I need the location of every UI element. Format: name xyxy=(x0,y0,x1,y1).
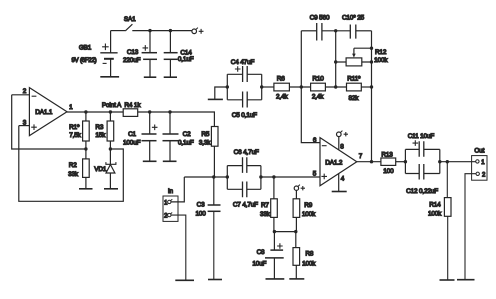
capacitor C11 (parallel box with C12) xyxy=(405,133,439,174)
svg-text:SA1: SA1 xyxy=(124,16,136,23)
wire (to pin 5) xyxy=(261,176,320,178)
svg-text:R9: R9 xyxy=(304,202,312,209)
wire (R4 to R5 corner) xyxy=(138,112,215,127)
svg-text:C4 47uF: C4 47uF xyxy=(231,59,255,66)
wire (DA1.2 output) xyxy=(357,161,381,163)
svg-text:DA1.1: DA1.1 xyxy=(35,109,53,116)
wire (In pin2 to ground) xyxy=(171,215,186,280)
zener diode VD1 xyxy=(94,149,116,189)
node (feedback left rail junction) xyxy=(300,85,303,88)
resistor R3 xyxy=(95,112,113,149)
node (right rail / R11) xyxy=(370,85,373,88)
capacitor C3 xyxy=(195,177,220,280)
svg-text:100: 100 xyxy=(195,210,206,217)
svg-text:Out: Out xyxy=(474,148,484,155)
capacitor C10 xyxy=(342,15,372,39)
node (C8 top) xyxy=(273,230,276,233)
connector Out xyxy=(472,148,487,181)
svg-text:R3: R3 xyxy=(95,124,103,131)
node (R3/VD1 junction) xyxy=(109,147,112,150)
terminal O+ (supply) xyxy=(192,28,204,34)
svg-text:0,1uF: 0,1uF xyxy=(178,56,194,63)
wire (In pin1 to signal node) xyxy=(171,177,184,202)
wire (DA1.1 output rail) xyxy=(67,111,123,113)
svg-text:R14: R14 xyxy=(429,202,441,209)
capacitor C2 xyxy=(163,112,194,161)
svg-text:Point A: Point A xyxy=(102,102,122,109)
svg-text:R8: R8 xyxy=(305,250,313,257)
resistor R9 xyxy=(293,190,316,231)
node (C9/C10 mid top) xyxy=(334,29,337,32)
svg-text:4: 4 xyxy=(341,176,345,183)
svg-text:In: In xyxy=(168,188,174,195)
wire (mid rail C10 to R10/R11 node) xyxy=(335,31,337,87)
capacitor C1 xyxy=(123,112,157,161)
resistor R7 xyxy=(260,177,277,232)
ground (C1) xyxy=(143,160,157,162)
resistor R14 xyxy=(428,162,451,280)
ground (C4/C5 stub) xyxy=(208,98,223,100)
svg-text:R4 1k: R4 1k xyxy=(124,102,141,109)
svg-text:R11*: R11* xyxy=(347,76,361,83)
svg-text:100k: 100k xyxy=(374,57,388,64)
wire (R6 to R10) xyxy=(289,86,310,88)
ground (VD1) xyxy=(104,188,118,190)
node (output/feedback junction) xyxy=(370,160,373,163)
op-amp DA1.1 xyxy=(23,88,73,136)
svg-text:15k: 15k xyxy=(95,132,106,139)
wire (pin 4 to ground) xyxy=(338,174,340,192)
svg-text:C5 0,1uF: C5 0,1uF xyxy=(232,112,257,119)
resistor R2 xyxy=(68,149,89,189)
wire (pin3 bias loop) xyxy=(19,126,124,202)
wire (pin 2 input) xyxy=(12,94,30,96)
op-amp DA1.2 xyxy=(313,137,363,186)
node (R8 top) xyxy=(294,230,297,233)
ground (C2) xyxy=(163,160,177,162)
svg-text:82k: 82k xyxy=(348,95,359,102)
capacitor C4 (in parallel box with C5) xyxy=(227,59,261,100)
svg-text:100: 100 xyxy=(383,168,394,175)
capacitor C7 xyxy=(227,182,261,209)
svg-text:R2: R2 xyxy=(69,162,77,169)
ground (Out pin2) xyxy=(457,279,475,281)
ground (R14) xyxy=(440,279,455,281)
svg-text:5: 5 xyxy=(313,170,317,177)
ground (battery) xyxy=(100,76,119,78)
wire (to Out jack) xyxy=(440,161,476,163)
svg-text:2: 2 xyxy=(23,88,27,95)
wire (R10 to R11) xyxy=(325,86,346,88)
ground (R2) xyxy=(79,188,93,190)
terminal O+ (R9 supply) xyxy=(294,185,305,191)
node (C13 top junction) xyxy=(148,29,151,32)
svg-text:GB1: GB1 xyxy=(79,45,92,52)
battery GB1 xyxy=(72,31,118,77)
svg-text:VD1: VD1 xyxy=(94,166,107,173)
svg-text:220uF: 220uF xyxy=(123,57,141,64)
node (C4/C5 left rail) xyxy=(226,85,229,88)
svg-text:C7 4,7uF: C7 4,7uF xyxy=(233,201,258,208)
svg-text:8: 8 xyxy=(340,144,344,151)
svg-text:R1*: R1* xyxy=(69,124,80,131)
wire (feedback right rail) xyxy=(371,31,373,162)
node (R1/R2 junction) xyxy=(84,147,87,150)
ground (C3) xyxy=(208,279,222,281)
node (C2 top) xyxy=(168,110,171,113)
ground (C13) xyxy=(144,76,157,78)
svg-text:C3: C3 xyxy=(197,201,205,208)
capacitor C12 xyxy=(405,164,439,195)
ground (In pin2) xyxy=(175,279,194,281)
svg-text:C1: C1 xyxy=(128,131,136,138)
capacitor C13 xyxy=(123,31,157,78)
resistor R4 xyxy=(123,102,141,117)
wire (C4/C5 left to ground) xyxy=(215,87,228,99)
node (R3 top junction) xyxy=(109,110,112,113)
svg-text:C10* 25: C10* 25 xyxy=(342,15,365,22)
svg-text:33k: 33k xyxy=(260,211,271,218)
svg-text:2: 2 xyxy=(482,173,486,179)
terminal O+ (DA1.2 pin 8 supply) xyxy=(337,131,349,150)
svg-text:100k: 100k xyxy=(302,211,316,218)
node (R7 top) xyxy=(272,175,275,178)
wire (signal node row) xyxy=(184,176,227,178)
svg-text:C6 4,7uF: C6 4,7uF xyxy=(234,149,259,156)
svg-text:R10: R10 xyxy=(312,76,324,83)
svg-text:7,5k: 7,5k xyxy=(69,132,81,139)
wire (pin 3 input) xyxy=(19,125,30,127)
ground (DA1.2 pin 4) xyxy=(332,191,347,193)
svg-text:R13: R13 xyxy=(381,151,393,158)
svg-text:C8: C8 xyxy=(257,249,265,256)
svg-text:R6: R6 xyxy=(277,76,285,83)
node (R14 top) xyxy=(446,160,449,163)
wire (R7/R9 bottom link) xyxy=(274,231,295,233)
wire (feedback to R1/R2 node) xyxy=(12,95,86,149)
svg-text:C12 0,22uF: C12 0,22uF xyxy=(406,188,438,195)
wire (R13 to C11 box) xyxy=(396,161,406,163)
node (C14 top junction) xyxy=(169,29,172,32)
connector In xyxy=(163,188,178,222)
node (C11/C12 left rail) xyxy=(404,160,407,163)
svg-text:C2: C2 xyxy=(183,131,191,138)
capacitor C5 xyxy=(227,92,261,120)
svg-text:1: 1 xyxy=(481,160,485,166)
node (pot right) xyxy=(370,60,373,63)
node (R5/C3 junction) xyxy=(212,175,215,178)
resistor R1 xyxy=(69,112,89,149)
capacitor C9 xyxy=(301,15,350,41)
svg-text:C9 560: C9 560 xyxy=(310,15,330,22)
node (C4/C5 right rail) xyxy=(260,85,263,88)
resistor R11 xyxy=(347,76,362,102)
svg-text:100k: 100k xyxy=(302,260,316,267)
wire (Out pin2 to ground) xyxy=(465,174,476,280)
resistor R5 xyxy=(199,127,218,178)
svg-text:3,3k: 3,3k xyxy=(199,140,211,147)
svg-text:6: 6 xyxy=(313,137,317,144)
svg-text:C13: C13 xyxy=(127,49,139,56)
ground (R8) xyxy=(289,278,304,280)
node (C6/C7 left rail) xyxy=(226,175,229,178)
svg-text:C11 10uF: C11 10uF xyxy=(408,133,435,140)
capacitor C6 (parallel box with C7) xyxy=(227,149,261,190)
potentiometer R12 xyxy=(336,48,389,66)
node (C6/C7 right rail) xyxy=(259,175,262,178)
resistor R8 xyxy=(293,232,316,279)
svg-text:2,4k: 2,4k xyxy=(312,94,324,101)
node (R1 top junction) xyxy=(84,110,87,113)
svg-text:R7: R7 xyxy=(261,202,269,209)
node (pot left) xyxy=(334,60,337,63)
svg-text:33k: 33k xyxy=(68,171,79,178)
wire (feedback left rail to pin 6) xyxy=(301,31,320,143)
svg-text:100k: 100k xyxy=(428,210,442,217)
switch SA1 xyxy=(111,16,137,31)
svg-text:0,1uF: 0,1uF xyxy=(178,140,194,147)
node (C11/C12 right rail) xyxy=(438,160,441,163)
svg-text:R12: R12 xyxy=(375,49,387,56)
resistor R6 xyxy=(274,76,290,101)
svg-text:R5: R5 xyxy=(201,131,209,138)
svg-text:DA1.2: DA1.2 xyxy=(325,159,343,166)
node (C1 top) xyxy=(148,110,151,113)
node (R10/R11 junction) xyxy=(334,85,337,88)
capacitor C14 xyxy=(164,31,194,78)
wire (R11 to right rail) xyxy=(361,86,371,88)
wire (to R6) xyxy=(262,86,274,88)
ground (C8) xyxy=(266,278,285,280)
svg-text:10uF: 10uF xyxy=(252,260,266,267)
resistor R10 xyxy=(311,76,326,101)
svg-text:2,4k: 2,4k xyxy=(276,94,288,101)
svg-text:7: 7 xyxy=(359,153,363,160)
ground (C14) xyxy=(164,76,177,78)
svg-text:100uF: 100uF xyxy=(123,140,141,147)
resistor R13 xyxy=(381,151,396,175)
svg-text:9V (6F22): 9V (6F22) xyxy=(72,58,97,64)
capacitor C8 xyxy=(252,232,283,279)
node (pot wiper to rail) xyxy=(370,47,373,50)
wire (top supply rail) xyxy=(132,30,192,32)
svg-text:1: 1 xyxy=(69,104,73,111)
